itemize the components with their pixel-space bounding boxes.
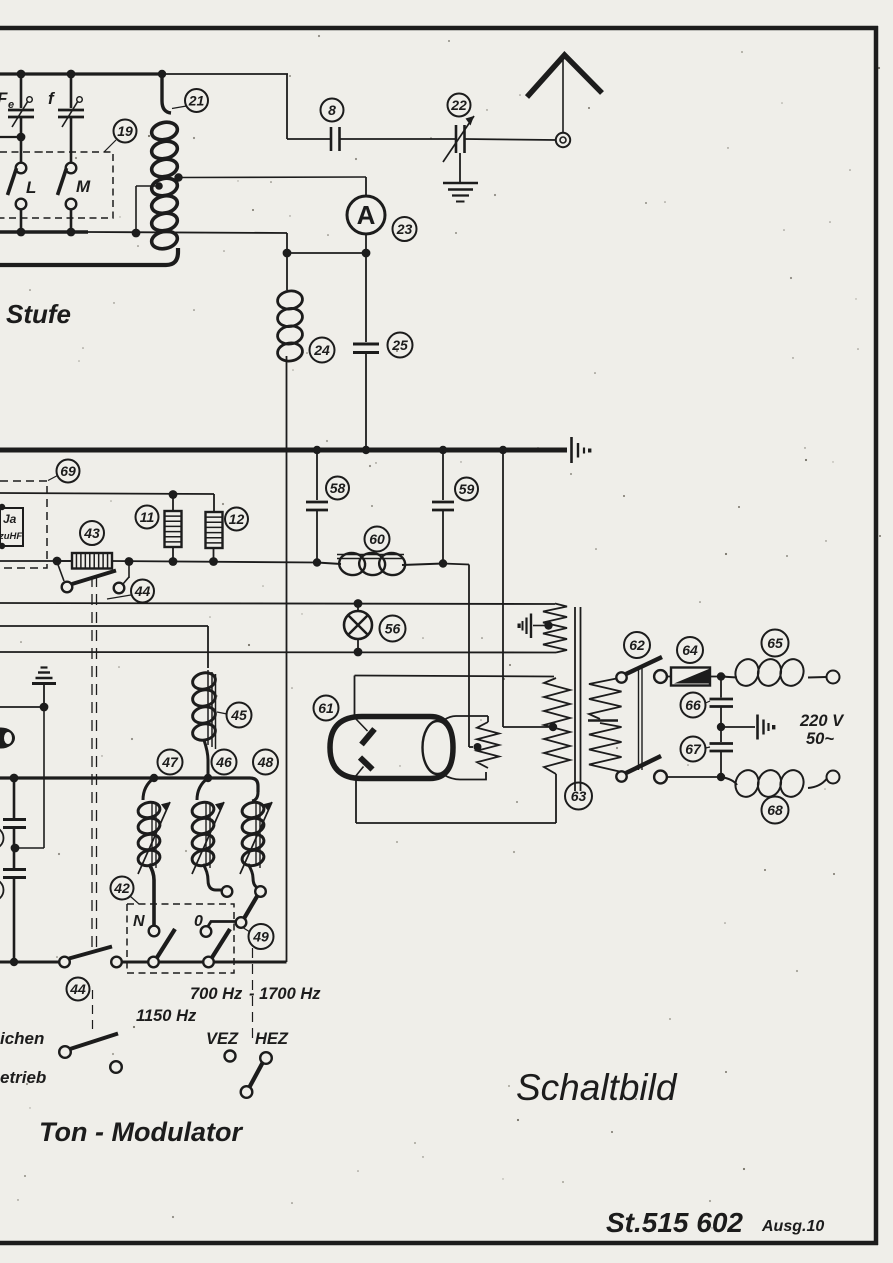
wire x14 down [13,778,16,818]
capacitor left A [3,820,26,828]
wire y562 left [0,560,72,562]
wire fuse to coil65 [710,676,726,678]
svg-text:f: f [48,89,56,108]
contact pivot O [203,957,214,968]
text 700Hz-1700Hz [190,985,321,1003]
svg-text:21: 21 [188,93,205,109]
label 69 [48,460,80,483]
lever [69,947,112,959]
resistor R11 [165,511,182,547]
switch S44 wire right [123,562,129,585]
node rail coil46 [204,774,212,782]
node junction coil21 top [158,70,166,78]
contact HEZ bottom [241,1086,253,1098]
label 61 [314,696,339,721]
switch S62 link [639,668,643,770]
coil L21 upper winding [150,120,179,179]
capacitor C22 variable [443,116,474,162]
switch M contact bottom [66,199,77,210]
svg-text:24: 24 [313,342,330,358]
tube V61 anode 2 [355,758,373,778]
switch S62 contact ul [616,672,626,682]
svg-text:Ja: Ja [3,512,17,526]
svg-text:0: 0 [194,913,203,930]
node junction coil24 top [283,249,292,258]
svg-text:M: M [76,177,91,196]
coil L68 terminal [827,771,840,784]
label 21 [172,89,208,112]
wire meter down [365,234,367,253]
svg-text:64: 64 [682,642,698,658]
node junction f [67,70,76,79]
coil L21 lower winding [150,176,179,251]
contact coil48 end [255,886,266,897]
switch S62 contact lr [654,771,667,784]
svg-text:etrieb: etrieb [0,1068,46,1087]
label 25 [388,333,413,358]
svg-text:L: L [26,178,36,197]
capacitor C59 [432,450,454,563]
svg-text:Ton - Modulator: Ton - Modulator [39,1117,243,1147]
switch zeichen-betrieb contact b [110,1061,122,1073]
switch S44 wire [57,562,64,581]
svg-text:67: 67 [685,741,702,757]
contact O [201,926,212,937]
label 12 [225,508,248,531]
label 63 [565,783,592,810]
node junction M bottom [67,228,76,237]
svg-text:220 V: 220 V [799,712,845,730]
coil L48 variable [240,792,272,888]
fuse F64 [671,668,710,686]
node coil60 right [439,559,447,567]
label 49 [244,924,274,949]
contact left [59,957,70,968]
contact coil46 end [222,886,233,897]
capacitor C66 [710,677,734,728]
tube V61 anode 1 [355,718,375,745]
switch M lever [58,168,67,195]
contact pivot N [148,957,159,968]
svg-text:45: 45 [230,707,247,723]
capacitor C8 [331,127,340,151]
wire top rail y74 [0,72,288,75]
text zeichen fragment [0,1029,44,1048]
svg-text:1150 Hz: 1150 Hz [136,1007,197,1025]
wire Fe to switch L [20,137,23,163]
node rail coil47 [150,774,158,782]
svg-text:25: 25 [391,337,408,353]
label 24 [310,338,335,363]
svg-text:47: 47 [161,754,179,770]
contact right [111,957,122,968]
wire M down [70,209,73,232]
text 1150Hz [136,1007,197,1025]
label 62 [624,632,650,658]
svg-text:- 1700 Hz: - 1700 Hz [249,985,321,1003]
wire C8 to C22 [340,138,455,140]
svg-text:St.515 602: St.515 602 [606,1207,743,1238]
transformer core [575,607,581,791]
label 46 [212,750,237,775]
wire x469 down [443,564,473,748]
wire L down [20,209,23,232]
svg-text:12: 12 [229,511,245,527]
coil L47 variable [137,778,170,925]
resistor R12 [206,512,223,561]
switch S44 lever [72,571,116,585]
switch S62 lever lower [626,756,661,773]
earth bus [0,448,567,453]
text Schaltbild [516,1067,678,1108]
winding primary lower [589,723,622,777]
mains ground [721,715,775,740]
contact VEZ [225,1051,236,1062]
wire tube bottom loop [356,774,556,823]
wire bottom rail left [0,961,60,964]
wire y675 [355,676,555,677]
node sw44 top [53,557,62,566]
svg-text:19: 19 [117,123,133,139]
coil L46 variable [191,778,224,890]
svg-text:zuHF: zuHF [0,531,22,542]
resistor R43 [57,553,112,569]
label 58 [326,477,349,500]
lever N [157,929,175,958]
wire y253 [287,233,366,253]
svg-text:62: 62 [629,637,645,653]
node junction tap riser [132,229,141,238]
capacitor C67 [710,727,734,776]
svg-text:59: 59 [459,481,475,497]
node rail x14 [10,774,19,783]
switch L contact bottom [16,199,27,210]
coil L21 lead [162,74,171,113]
switch S44 contact left [62,582,73,593]
svg-text:Schaltbild: Schaltbild [516,1067,678,1108]
svg-text:43: 43 [83,525,100,541]
switch S44 contact right [114,583,125,594]
text VEZ [206,1030,239,1048]
switch HEZ lever [250,1062,264,1087]
node bus cap59 [439,446,447,454]
node junction Fe [17,70,26,79]
mechanical link dashed [92,576,97,947]
wire C22 to terminal [465,139,556,140]
svg-text:63: 63 [571,788,587,804]
relay box Ja zuHF [0,504,23,549]
wire y562 mid [112,561,317,563]
antenna [527,55,602,133]
label 66 [681,693,711,718]
label 11 [136,506,159,529]
switch L contact top [16,163,27,174]
label 45 [217,703,252,728]
text Ton-Modulator [39,1117,243,1147]
switch M contact top [66,163,77,174]
wire tap to meter [179,177,367,196]
text betrieb fragment [0,1068,46,1087]
node junction cap25 top [362,249,371,258]
antenna terminal [556,133,570,147]
node mains low [717,773,725,781]
capacitor left B [3,870,26,878]
wire y921 [208,922,238,928]
wire to fuse [667,676,671,678]
label N [133,913,145,930]
switch zeichen-betrieb lever [70,1034,118,1050]
label 43 [80,521,104,545]
svg-text:56: 56 [385,621,401,637]
switch S62 lever upper [626,657,662,674]
switch M label [76,177,91,196]
winding primary upper [589,678,622,720]
trimmer capacitor Fe [8,74,34,137]
coil L45 winding [191,670,217,778]
wire bottom rail mid [121,961,287,962]
trimmer capacitor Fe label [0,89,14,111]
label 19 [104,120,137,153]
node mains mid [717,723,725,731]
contact S49 bottom [236,917,247,928]
switch L lever [8,168,17,195]
switch S49 lever [244,896,258,919]
node lamp bottom [354,648,363,657]
svg-text:22: 22 [450,97,467,113]
contact HEZ top [260,1052,272,1064]
wire x14 low [13,878,16,962]
wire x14 mid [13,828,16,868]
wire thick return y265 [0,248,178,265]
border frame right [874,26,879,1245]
trimmer capacitor f [58,74,84,163]
svg-text:VEZ: VEZ [206,1030,239,1048]
wire sw to coil68 [667,776,721,778]
coil L65 [721,656,827,689]
label 22 [448,94,471,117]
wire y494 [0,493,214,512]
label 59 [455,478,478,501]
dashed box 19 [0,152,113,218]
node fuse out [717,672,725,680]
wire y652 [0,651,556,654]
svg-text:ichen: ichen [0,1029,44,1048]
capacitor C58 [306,450,328,562]
svg-text:46: 46 [215,754,232,770]
svg-text:8: 8 [328,102,336,118]
capacitor C25 [353,253,379,448]
primary tap stub [588,719,618,722]
node junction L bottom [17,228,26,237]
wire stub left y137 [0,136,21,138]
contact N [149,926,160,937]
bus ground symbol [572,437,592,463]
svg-text:A: A [357,200,376,230]
node heater tap [474,743,482,751]
coil L24 winding [276,289,303,362]
svg-text:61: 61 [318,700,334,716]
label 8 [321,99,344,122]
wire y626 [0,626,208,668]
coil L24 lead [286,253,288,290]
svg-text:58: 58 [330,480,346,496]
text Ausg.10 [761,1218,824,1235]
winding 63 center tap [549,723,557,731]
svg-text:69: 69 [60,463,76,479]
node x15 y848 [11,844,20,853]
aux center tap [544,621,552,629]
heater winding [477,716,499,768]
dashed box 69 [0,481,47,568]
border frame top [0,26,878,31]
switch S62 contact ll [616,771,626,781]
node rail x14 bottom [10,958,18,966]
aux ground [518,614,549,639]
text 220V [799,712,845,730]
svg-text:50~: 50~ [806,730,834,748]
label 68 [762,797,789,824]
svg-text:11: 11 [140,509,155,525]
switch zeichen-betrieb contact a [59,1046,71,1058]
mech link dashed 49 [252,948,254,1038]
text 50Hz [806,730,834,748]
label 64 [677,637,703,663]
tube anode fragment [0,728,15,749]
node tap left of L21 [155,182,163,190]
wire tube right bottom [444,772,486,780]
chassis ground [32,668,56,708]
label 44 upper [107,580,154,603]
border frame bottom [0,1241,878,1246]
wire y707 [0,706,44,708]
svg-text:65: 65 [767,635,783,651]
wire r11 bottom [172,547,174,561]
svg-text:48: 48 [257,754,274,770]
svg-text:68: 68 [767,802,783,818]
label 60 [365,527,390,552]
label 44 lower [67,978,93,1031]
ground below C22 [443,153,478,202]
winding 63 HV [544,678,570,774]
label 67 [681,737,711,762]
wire ground riser [15,707,44,848]
tube V61 envelope [330,717,453,779]
label 48 [253,750,278,775]
node tap of L21 [174,173,182,181]
switch L label [26,178,36,197]
wire to C8 [287,74,330,139]
trimmer capacitor f label [48,89,56,108]
node r11 top [169,490,178,499]
svg-text:Stufe: Stufe [6,299,71,329]
node x129 [125,557,134,566]
svg-text:F: F [0,89,8,108]
wire y603 [0,603,555,604]
wire bottom rail y232 [0,232,287,233]
winding aux top [543,604,567,653]
coil L65 terminal [827,671,840,684]
node bus cap25 [362,446,370,454]
node ground junction [40,703,49,712]
svg-text:60: 60 [369,531,385,547]
label 56 [380,616,406,642]
svg-text:23: 23 [396,221,413,237]
wire tube right top [444,716,488,720]
node junction below Fe [17,133,26,142]
svg-text:42: 42 [113,880,130,896]
node r11 bottom [169,557,178,566]
label 23 [393,217,417,241]
text Stufe [6,299,71,329]
wire long vertical x286 [286,356,288,961]
label 47 [158,750,183,775]
node coil60 left [313,558,321,566]
wire tube top [354,676,356,717]
svg-text:N: N [133,913,145,930]
svg-text:66: 66 [685,697,701,713]
coil L21 tap wire left [136,186,156,233]
node lamp top [354,599,363,608]
svg-text:Ausg.10: Ausg.10 [761,1218,824,1235]
svg-text:HEZ: HEZ [255,1030,289,1048]
svg-text:700 Hz: 700 Hz [190,985,243,1003]
label circle fragment a [0,827,4,849]
choke L60 winding [317,551,443,576]
label circle fragment b [0,879,4,901]
text HEZ [255,1030,289,1048]
lamp 56 [344,603,372,652]
wire rail y778 [0,778,258,792]
wire tap to bus column [503,450,550,727]
meter A U23 [347,196,385,234]
coil L68 [721,767,827,800]
lever O [212,929,230,958]
label 65 [762,630,789,657]
dashed box N-O [127,904,234,973]
label O [194,913,203,930]
switch S62 contact ur [654,670,667,683]
svg-text:44: 44 [134,583,151,599]
svg-text:44: 44 [69,981,86,997]
node r12 bottom [209,557,218,566]
text St.515602 [606,1207,743,1238]
svg-text:49: 49 [252,929,269,945]
node bus transformer [499,446,507,454]
label 42 [111,877,140,905]
node bus cap58 [313,446,321,454]
